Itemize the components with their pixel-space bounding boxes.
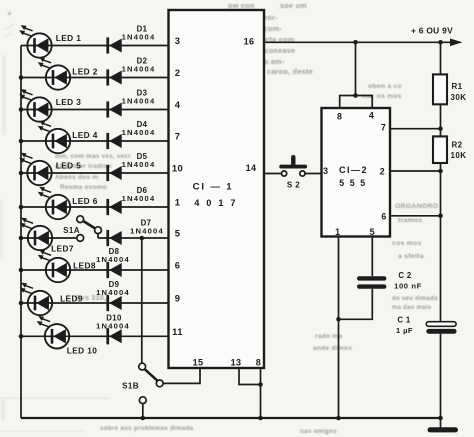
- svg-text:1: 1: [175, 197, 181, 208]
- svg-text:LED8: LED8: [73, 261, 96, 271]
- node: bus junction row 6: [19, 205, 24, 210]
- svg-text:9: 9: [175, 293, 181, 304]
- pin 4 of CI-2: [369, 111, 374, 121]
- label LED 8: [73, 261, 96, 271]
- svg-text:LED 6: LED 6: [72, 196, 98, 206]
- svg-text:5 5 5: 5 5 5: [339, 178, 367, 188]
- svg-text:LED 1: LED 1: [56, 33, 82, 43]
- node: rail junction at 555 supply: [353, 40, 358, 45]
- svg-text:7: 7: [381, 123, 386, 133]
- node: S1B ground junction: [141, 416, 146, 421]
- svg-text:LED 4: LED 4: [72, 130, 98, 140]
- wire: C2 to pin 1 line: [339, 289, 373, 320]
- svg-text:+ 6 OU 9V: + 6 OU 9V: [411, 26, 453, 36]
- svg-text:CI — 1: CI — 1: [193, 182, 234, 193]
- op IC CI-1 4017: [169, 10, 265, 368]
- resistor R2 10K: [433, 136, 466, 163]
- label C1 1uF: [396, 316, 413, 336]
- svg-text:1N4004: 1N4004: [130, 226, 164, 235]
- svg-text:sobre aos problemas dimada: sobre aos problemas dimada: [100, 425, 194, 432]
- pin 3 of CI-2: [323, 166, 328, 176]
- label LED 7: [51, 244, 74, 254]
- svg-text:1N4004: 1N4004: [122, 97, 156, 106]
- wire: R1 to R2: [440, 104, 442, 136]
- svg-text:1N4004: 1N4004: [96, 255, 130, 264]
- label S1B: [122, 381, 139, 390]
- pin 4 of CI-1: [175, 99, 181, 110]
- svg-text:LED 5: LED 5: [56, 161, 82, 171]
- wire: pin 2 of CI-2 to divider: [390, 170, 441, 172]
- svg-text:tramos: tramos: [398, 217, 422, 224]
- pin 1 of CI-1: [175, 197, 181, 208]
- pin 2 of CI-1: [175, 67, 181, 78]
- wire: row 4 (LED 4 to pin 7): [21, 140, 169, 142]
- pin 6 of CI-1: [175, 260, 181, 271]
- label C2 100nF: [394, 271, 422, 291]
- pin 14 of CI-1: [246, 163, 257, 173]
- node: bus junction row 9: [19, 301, 24, 306]
- wire: pin 7 of CI-2 to divider: [390, 128, 441, 130]
- svg-text:1 µF: 1 µF: [396, 326, 413, 335]
- wire: row 3 (LED 3 to pin 4): [21, 109, 169, 111]
- diode D4 1N4004: [106, 120, 155, 149]
- svg-text:4 0 1 7: 4 0 1 7: [194, 198, 238, 208]
- wire: bottom ground rail: [21, 417, 441, 419]
- pin 13 of CI-1: [231, 358, 242, 368]
- svg-text:5: 5: [175, 228, 181, 239]
- resistor R1 30K: [433, 74, 466, 104]
- svg-text:7: 7: [175, 131, 181, 142]
- node: pin 6 junction: [438, 214, 443, 219]
- wire: +V power rail (pin 16): [264, 39, 463, 47]
- label LED 9: [60, 294, 83, 304]
- svg-text:5: 5: [370, 227, 375, 237]
- wire: pin 5 of CI-2 to C2: [371, 237, 373, 277]
- diode D10 1N4004: [96, 313, 130, 344]
- node: pin 7 junction: [438, 126, 443, 131]
- svg-text:mm, com mas ves, secr: mm, com mas ves, secr: [55, 153, 131, 160]
- label LED 5: [56, 161, 82, 171]
- LED 2: [38, 57, 70, 90]
- capacitor C2 100nF: [357, 276, 386, 289]
- wire: row 8 (LED 8 to pin 6): [21, 269, 169, 271]
- svg-text:3: 3: [323, 166, 328, 176]
- label LED 10: [67, 346, 98, 356]
- svg-text:cos mos: cos mos: [392, 240, 422, 247]
- label S2: [287, 181, 300, 190]
- label LED 6: [72, 196, 98, 206]
- LED 9: [20, 283, 53, 316]
- svg-text:1N4004: 1N4004: [122, 65, 156, 74]
- svg-text:2: 2: [175, 67, 181, 78]
- svg-text:S1B: S1B: [122, 381, 139, 390]
- label S1A: [63, 226, 80, 235]
- diode D6 1N4004: [106, 186, 155, 215]
- wire: LED cathode bus (left vertical): [20, 46, 22, 419]
- diode D8 1N4004: [96, 247, 130, 278]
- node: bus junction row 2: [19, 75, 24, 80]
- svg-text:11: 11: [172, 326, 183, 337]
- wire: row 7 down to S1B: [141, 238, 143, 363]
- svg-text:LED 3: LED 3: [56, 97, 82, 107]
- svg-text:R2: R2: [452, 141, 463, 150]
- diode D2 1N4004: [106, 56, 155, 85]
- LED 7: [20, 218, 53, 251]
- svg-text:ow con: ow con: [228, 1, 255, 10]
- wire: row 2 (LED 2 to pin 2): [21, 77, 169, 79]
- svg-text:LED7: LED7: [51, 244, 74, 254]
- svg-text:C 1: C 1: [397, 316, 411, 325]
- wire: row 9 (LED 9 to pin 9): [21, 302, 169, 304]
- ground terminal bar: [428, 427, 459, 432]
- label +6 OU 9V supply: [411, 26, 453, 36]
- wire: pins 13+8 to ground: [239, 368, 261, 418]
- pin 16 of CI-1: [244, 37, 255, 47]
- node: bus junction row 10: [19, 334, 24, 339]
- svg-text:4: 4: [369, 111, 374, 121]
- svg-text:LED 10: LED 10: [67, 346, 98, 356]
- svg-text:13: 13: [231, 358, 242, 368]
- svg-text:6: 6: [381, 212, 386, 222]
- LED 5: [19, 153, 52, 186]
- svg-text:1N4004: 1N4004: [96, 321, 130, 330]
- svg-text:10: 10: [172, 163, 183, 174]
- wire: S1B lower contact to ground rail: [142, 404, 144, 418]
- svg-text:16: 16: [244, 37, 255, 47]
- node: row 7 / S1B tap junction: [140, 236, 145, 241]
- node: pin 1 ground junction: [336, 416, 341, 421]
- node: rail junction at R1: [438, 40, 443, 45]
- svg-text:1N4004: 1N4004: [122, 128, 156, 137]
- svg-text:Abens dos m: Abens dos m: [55, 174, 98, 181]
- pin 3 of CI-1: [175, 35, 181, 46]
- node: pin 2 junction: [438, 169, 443, 174]
- label LED 3: [56, 97, 82, 107]
- pin 1 of CI-2: [335, 227, 340, 237]
- svg-text:ORGANORO: ORGANORO: [395, 203, 438, 210]
- svg-text:S 2: S 2: [287, 181, 300, 190]
- svg-text:ma; os mos: ma; os mos: [362, 93, 402, 100]
- svg-text:1N4004: 1N4004: [122, 194, 156, 203]
- switch S1B: [139, 363, 163, 403]
- wire: pin 1 of CI-2 to ground: [338, 237, 340, 419]
- node: pin8 bracket junction: [258, 382, 263, 387]
- svg-text:1N4004: 1N4004: [96, 288, 130, 297]
- pin 11 of CI-1: [172, 326, 183, 337]
- svg-text:a sfeita: a sfeita: [398, 253, 424, 260]
- svg-text:4: 4: [175, 99, 181, 110]
- svg-text:C 2: C 2: [398, 271, 412, 280]
- pin 5 of CI-2: [370, 227, 375, 237]
- svg-text:8: 8: [256, 358, 261, 368]
- wire: C1 to ground rail: [440, 334, 442, 428]
- wire: R2 down to C1: [440, 163, 442, 322]
- diode D7 1N4004: [106, 219, 164, 247]
- node: pin8 ground junction: [258, 416, 263, 421]
- label LED 1: [56, 33, 82, 43]
- svg-text:LED 2: LED 2: [72, 67, 98, 77]
- node: C1 ground junction: [438, 416, 443, 421]
- node: C2/pin1 junction: [336, 317, 341, 322]
- svg-text:ma das mais: ma das mais: [392, 305, 432, 311]
- LED 1: [19, 25, 52, 58]
- pin 6 of CI-2: [381, 212, 386, 222]
- svg-text:CI—2: CI—2: [339, 165, 368, 175]
- wire: supply to pins 8 and 4 of CI-2: [340, 42, 373, 108]
- svg-text:S1A: S1A: [63, 226, 80, 235]
- svg-text:ande dimos: ande dimos: [313, 345, 352, 352]
- wire: row 10 (LED 10 to pin 11): [21, 335, 169, 337]
- svg-text:30K: 30K: [451, 93, 467, 102]
- pushbutton S2: [279, 155, 307, 176]
- svg-text:14: 14: [246, 163, 257, 173]
- LED 4: [38, 121, 70, 154]
- node: bus junction row 5: [19, 171, 24, 176]
- svg-text:1N4004: 1N4004: [122, 33, 156, 42]
- wire: pin 6 of CI-2 to C1: [390, 215, 441, 217]
- svg-text:100 nF: 100 nF: [394, 281, 422, 290]
- LED 6: [38, 187, 70, 220]
- svg-text:obon a co: obon a co: [368, 83, 402, 90]
- node: bus junction row 8: [19, 268, 24, 273]
- wire: S2 to pin 3 of CI-2: [305, 173, 321, 175]
- diode D9 1N4004: [96, 280, 130, 311]
- diode D3 1N4004: [106, 88, 155, 117]
- pin 8 of CI-2: [337, 112, 342, 122]
- LED 3: [19, 89, 52, 122]
- svg-text:10K: 10K: [451, 151, 467, 160]
- svg-text:15: 15: [193, 358, 204, 368]
- svg-text:Resma oxomo: Resma oxomo: [60, 184, 107, 191]
- wire: rail to R1: [440, 42, 442, 74]
- svg-text:soe um: soe um: [280, 1, 307, 10]
- svg-text:do seu dimada: do seu dimada: [392, 296, 438, 302]
- svg-text:nas amigos: nas amigos: [300, 428, 337, 435]
- svg-text:8: 8: [337, 112, 342, 122]
- wire: row 5 (LED 5 to pin 10): [21, 172, 169, 174]
- LED 8: [38, 250, 70, 283]
- pin 15 of CI-1: [193, 358, 204, 368]
- node: bus junction row 4: [19, 139, 24, 144]
- svg-text:6: 6: [175, 260, 181, 271]
- op IC CI-2 555: [322, 108, 391, 237]
- node: bus junction row 7: [19, 236, 24, 241]
- node: bus junction row 3: [19, 107, 24, 112]
- capacitor C1 1uF: [426, 322, 456, 334]
- pin 5 of CI-1: [175, 228, 181, 239]
- wire: pin 14 to S2: [264, 173, 281, 175]
- svg-text:3: 3: [175, 35, 181, 46]
- label LED 2: [72, 67, 98, 77]
- svg-text:2: 2: [380, 167, 385, 177]
- diode D1 1N4004: [106, 24, 155, 53]
- pin 7 of CI-1: [175, 131, 181, 142]
- switch S1A: [77, 216, 102, 242]
- svg-text:LED9: LED9: [60, 294, 83, 304]
- wire: row 6 (LED 6 to pin 1): [21, 206, 169, 208]
- node: bracket junction: [353, 93, 358, 98]
- pin 7 of CI-2: [381, 123, 386, 133]
- wire: pin 15 to S1B: [163, 368, 200, 383]
- pin 8 of CI-1: [256, 358, 261, 368]
- LED 10: [37, 316, 69, 349]
- svg-text:1: 1: [335, 227, 340, 237]
- label LED 4: [72, 130, 98, 140]
- pin 9 of CI-1: [175, 293, 181, 304]
- wire: row 7 (LED 7 to pin 5): [21, 234, 169, 238]
- pin 2 of CI-2: [380, 167, 385, 177]
- svg-text:R1: R1: [452, 82, 463, 91]
- diode D5 1N4004: [106, 152, 155, 181]
- wire: row 1 (LED 1 to pin 3): [21, 45, 169, 47]
- svg-text:1N4004: 1N4004: [122, 160, 156, 169]
- pin 10 of CI-1: [172, 163, 183, 174]
